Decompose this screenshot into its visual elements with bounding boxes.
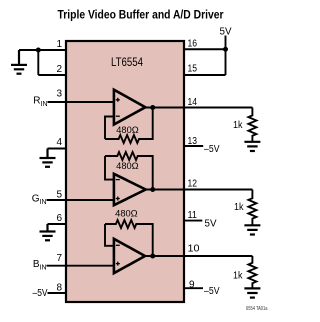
wire U1a inverting input to feedback — [105, 117, 114, 140]
svg-text:15: 15 — [188, 64, 198, 75]
svg-text:480Ω: 480Ω — [116, 161, 139, 172]
svg-text:13: 13 — [188, 136, 198, 147]
wire U1b output / pin 12 — [146, 189, 253, 191]
resistor 1k (load, pin 12) — [248, 190, 256, 226]
svg-text:1k: 1k — [233, 270, 243, 281]
pin 13 wire — [184, 145, 203, 147]
pin 9 wire — [184, 287, 203, 289]
pin 2 wire — [38, 74, 66, 76]
svg-text:1k: 1k — [233, 120, 243, 131]
svg-text:14: 14 — [188, 97, 198, 108]
wire 5V supply to pin 15 — [225, 36, 227, 76]
svg-text:16: 16 — [188, 39, 198, 50]
svg-text:LT6554: LT6554 — [111, 57, 144, 69]
svg-text:5: 5 — [56, 190, 62, 201]
svg-text:7: 7 — [56, 253, 62, 264]
ground (pins 1,2) — [11, 50, 27, 74]
svg-text:BIN: BIN — [33, 259, 47, 272]
wire U1c output / pin 10 — [145, 255, 252, 257]
svg-text:2: 2 — [56, 64, 62, 75]
pin 8 wire — [48, 292, 67, 294]
pin 3 wire (RIN input) — [48, 101, 114, 103]
svg-text:9: 9 — [189, 280, 195, 291]
wire junction to pin 2 — [37, 50, 39, 75]
pin 7 wire (BIN input) — [47, 265, 114, 267]
pin 5 wire (GIN input) — [47, 199, 114, 201]
svg-text:8: 8 — [56, 282, 62, 293]
ground (1k pin 12) — [244, 225, 260, 234]
svg-text:–5V: –5V — [204, 286, 220, 297]
ground (1k pin 10) — [244, 288, 260, 297]
svg-text:GIN: GIN — [32, 194, 47, 207]
resistor 480ohm (U1b feedback) — [105, 152, 153, 190]
svg-text:12: 12 — [188, 178, 198, 189]
svg-text:RIN: RIN — [33, 96, 47, 109]
svg-text:3: 3 — [56, 89, 62, 100]
pin 15 wire — [184, 74, 226, 76]
junction node 5V/pin16 — [223, 47, 228, 52]
svg-text:Triple Video Buffer and A/D Dr: Triple Video Buffer and A/D Driver — [58, 10, 224, 22]
ground (pin 4) — [40, 149, 56, 167]
op-amp U1b (G channel) — [114, 174, 146, 205]
svg-text:–5V: –5V — [33, 288, 48, 299]
op-amp U1c (B channel) — [114, 239, 145, 273]
pin 16 wire — [184, 48, 226, 50]
svg-text:1: 1 — [56, 39, 62, 50]
pin 11 wire — [184, 220, 202, 222]
op-amp U1a (R channel) — [114, 90, 145, 125]
wire U1c inverting input to feedback — [105, 224, 114, 246]
resistor 480ohm (U1c feedback) — [105, 220, 153, 256]
wire U1b inverting input to feedback — [105, 156, 114, 180]
resistor 1k (load, pin 10) — [248, 256, 256, 288]
svg-text:11: 11 — [188, 210, 198, 221]
svg-text:480Ω: 480Ω — [116, 125, 139, 136]
pin 6 wire — [48, 223, 67, 225]
IC U1 LT6554 body — [66, 41, 184, 302]
junction node pin1/pin2 tie — [36, 48, 41, 53]
pin 1 wire — [19, 49, 66, 51]
svg-text:5V: 5V — [205, 219, 217, 230]
resistor 480ohm (U1a feedback) — [105, 108, 153, 144]
svg-text:6: 6 — [56, 213, 62, 224]
svg-text:4: 4 — [56, 137, 62, 148]
ground (pin 6) — [40, 224, 56, 240]
ground (1k pin 14) — [244, 142, 260, 151]
junction node U1b output — [150, 187, 155, 192]
wire U1a output / pin 14 — [145, 107, 252, 109]
svg-text:6554 TA01a: 6554 TA01a — [246, 306, 268, 312]
junction node U1a output — [150, 105, 155, 110]
svg-text:1k: 1k — [234, 202, 244, 213]
svg-text:480Ω: 480Ω — [115, 208, 138, 219]
pin 4 wire — [48, 148, 67, 150]
junction node U1c output — [150, 254, 155, 259]
svg-text:10: 10 — [188, 244, 200, 255]
resistor 1k (load, pin 14) — [248, 108, 256, 142]
svg-text:–5V: –5V — [204, 144, 220, 155]
